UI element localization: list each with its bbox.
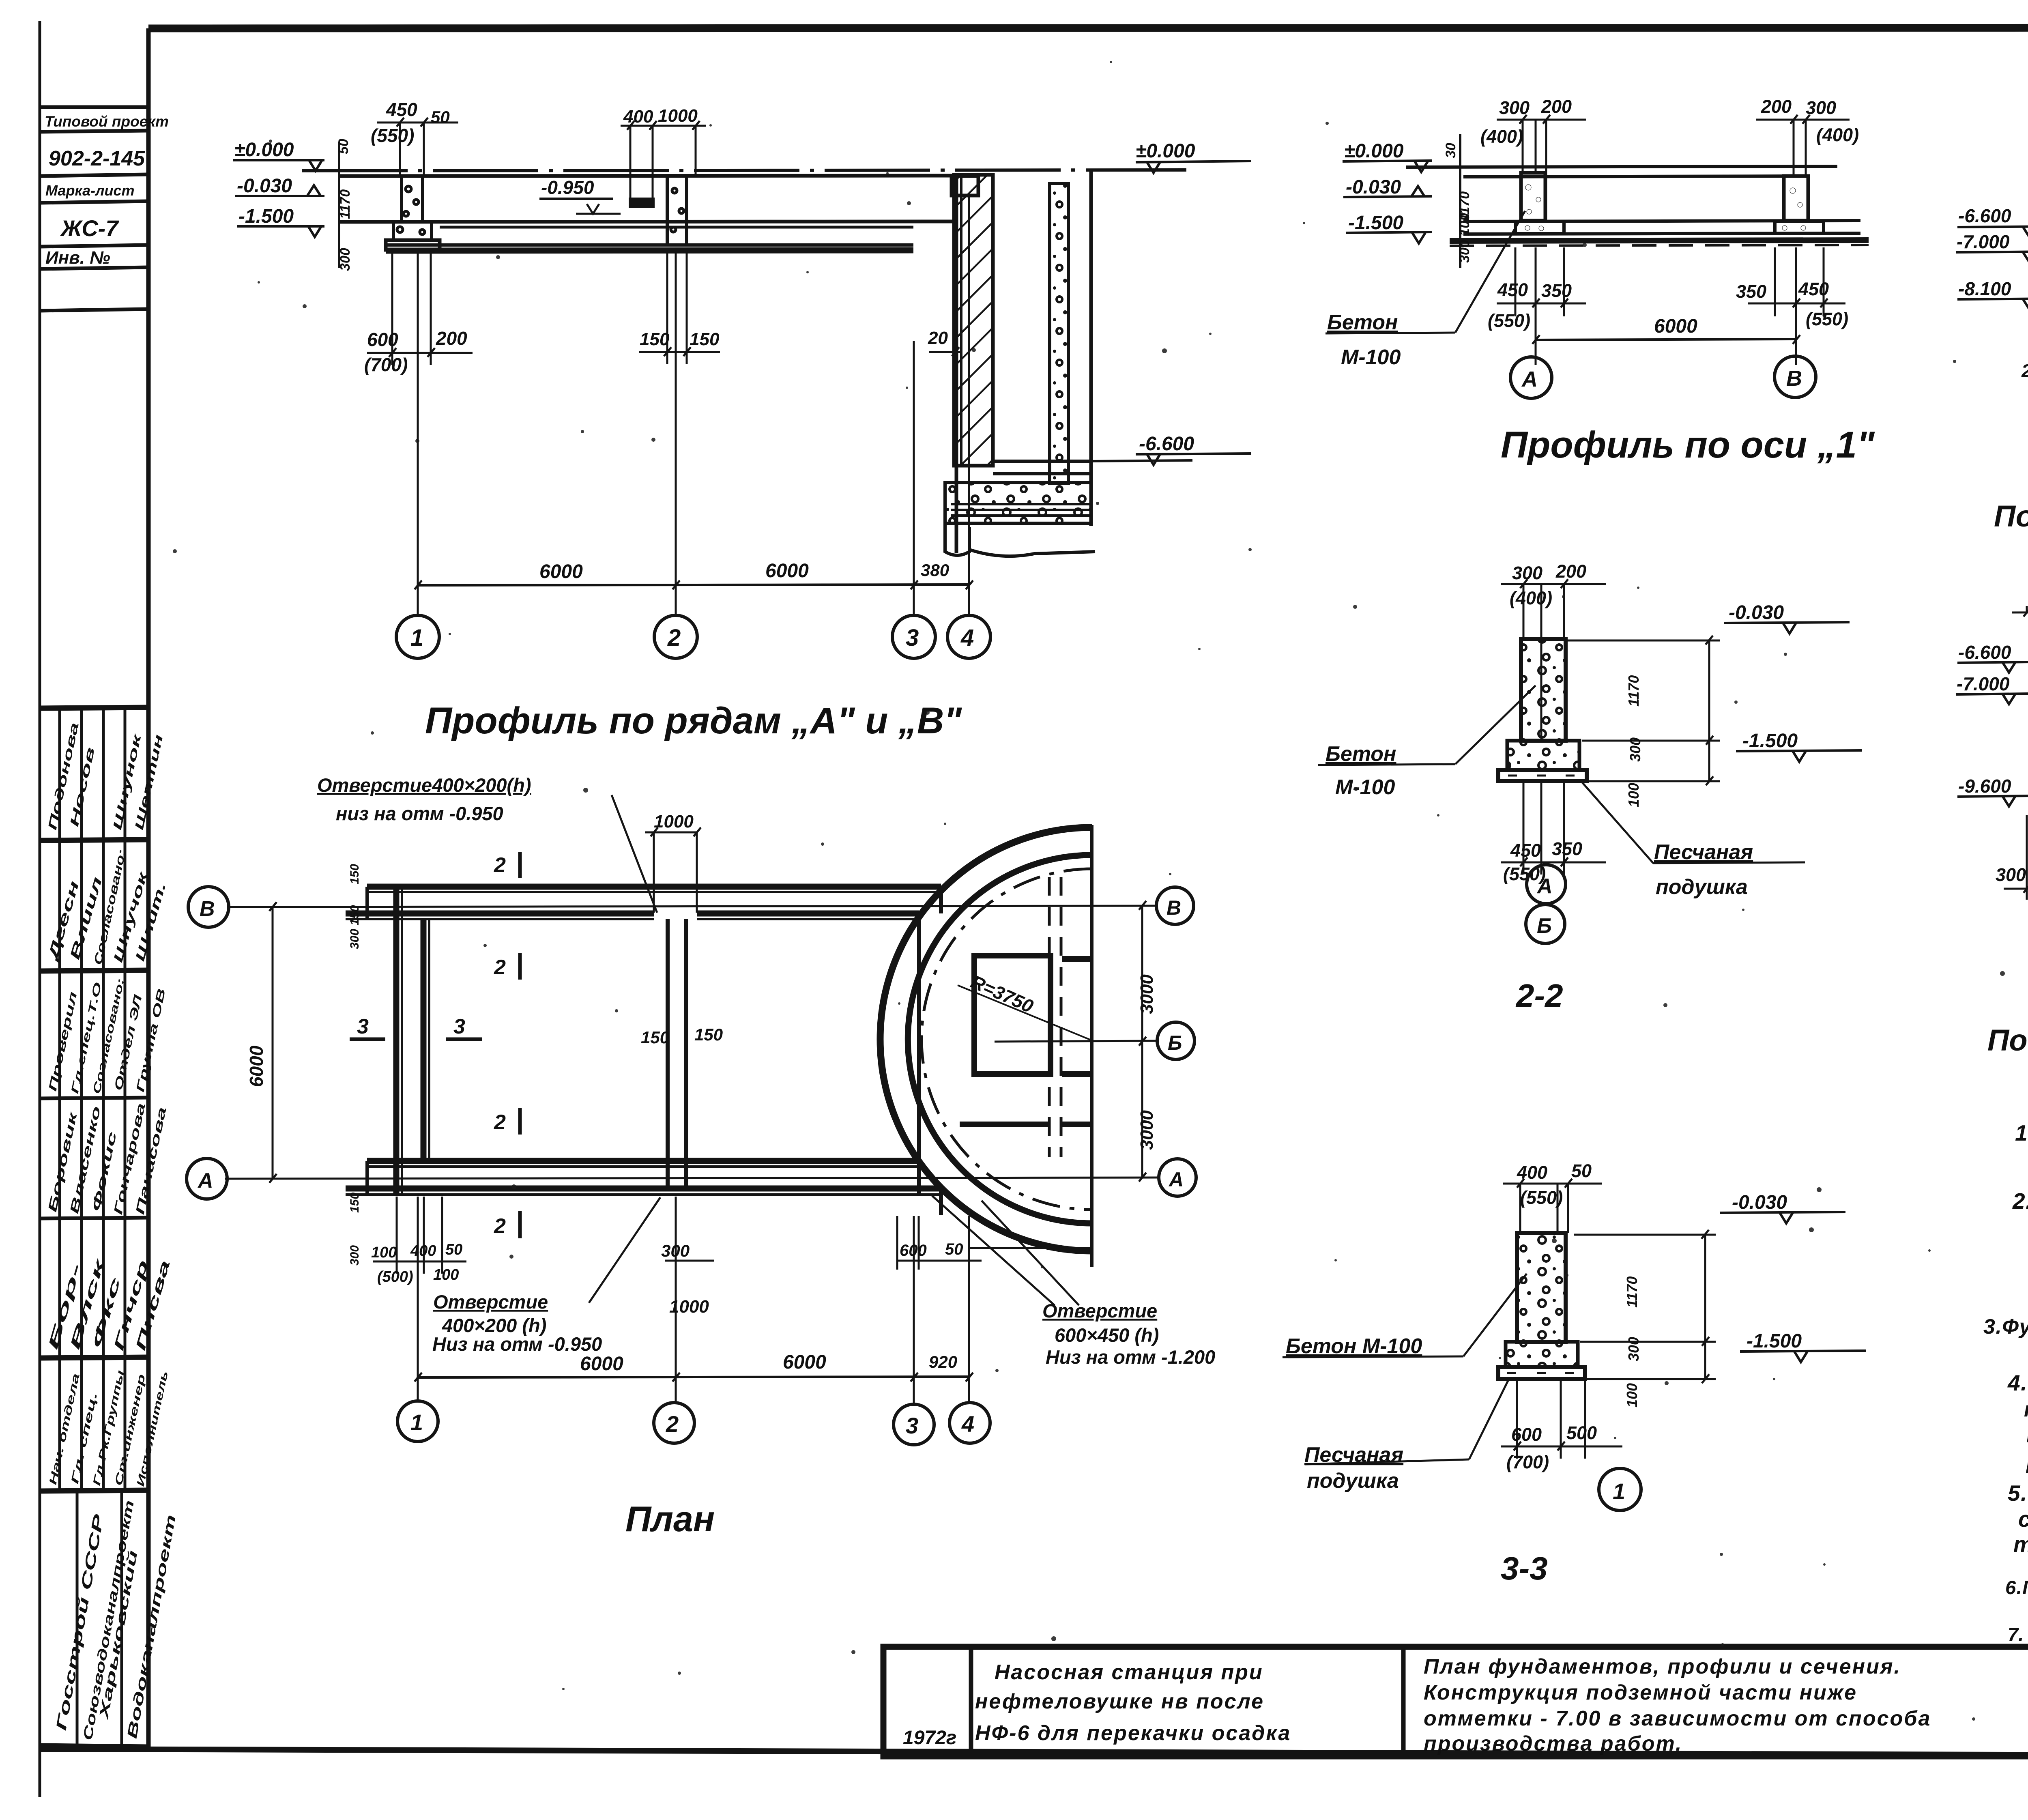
svg-text:-6.600: -6.600 <box>1958 205 2011 226</box>
svg-text:1: 1 <box>410 1410 423 1435</box>
slab top line <box>340 176 954 176</box>
svg-text:Погружение колодца с водоотлив: Погружение колодца с водоотливом. <box>1994 499 2028 533</box>
svg-text:ЖС-7: ЖС-7 <box>60 215 119 241</box>
plan section marks <box>350 852 520 1238</box>
frame bottom <box>40 1749 2028 1756</box>
stamp top labels <box>45 113 169 268</box>
svg-text:Конструкция подземной части: Конструкция подземной части ниже <box>1424 1681 1857 1704</box>
svg-text:300: 300 <box>1806 97 1836 118</box>
svg-text:400: 400 <box>623 107 653 127</box>
svg-text:1000: 1000 <box>669 1297 709 1317</box>
svg-text:150: 150 <box>640 329 670 349</box>
sec11b elevations <box>1956 662 2028 806</box>
svg-text:1000: 1000 <box>654 812 694 832</box>
svg-text:сматривается в связных глини: сматривается в связных глинистых грун- <box>2018 1506 2028 1532</box>
svg-text:4: 4 <box>960 625 974 651</box>
STAMP COLUMN TOP <box>40 107 148 311</box>
elevation marks left <box>233 142 339 268</box>
svg-text:6.Глубина заложения подушки оп: 6.Глубина заложения подушки определяется… <box>2005 1577 2028 1598</box>
svg-text:Песчаная: Песчаная <box>1654 840 1753 864</box>
svg-text:Профиль по рядам „А" и „В": Профиль по рядам „А" и „В" <box>425 700 962 741</box>
column axis1 <box>402 176 423 221</box>
svg-text:Марка-лист: Марка-лист <box>45 182 135 199</box>
svg-text:R=3750: R=3750 <box>968 971 1037 1017</box>
svg-text:600: 600 <box>367 329 398 350</box>
svg-text:100: 100 <box>1624 1383 1640 1407</box>
svg-text:100: 100 <box>1625 783 1642 807</box>
svg-text:-7.000: -7.000 <box>1957 231 2010 252</box>
svg-text:200: 200 <box>1761 96 1792 117</box>
svg-text:150: 150 <box>694 1025 723 1044</box>
vertical dim 6000 left <box>272 907 274 1179</box>
svg-text:(400): (400) <box>1510 588 1552 608</box>
svg-text:Бетон М-100: Бетон М-100 <box>1286 1334 1422 1358</box>
svg-text:200: 200 <box>1555 561 1586 582</box>
svg-text:(400): (400) <box>1816 125 1859 145</box>
frame left / stamp right edge <box>146 28 151 1750</box>
svg-text:200: 200 <box>436 328 467 349</box>
svg-text:тах.: тах. <box>2013 1532 2028 1557</box>
svg-text:300: 300 <box>1499 97 1530 118</box>
sec11a elevations <box>1956 226 2028 309</box>
svg-text:подушка: подушка <box>1307 1469 1399 1493</box>
svg-text:1: 1 <box>410 625 423 651</box>
svg-text:300: 300 <box>337 248 353 271</box>
svg-text:±0.000: ±0.000 <box>234 139 294 161</box>
svg-text:подушка: подушка <box>1656 875 1748 899</box>
svg-text:2: 2 <box>494 1214 506 1238</box>
SIGNATURE TABLE <box>40 707 148 1746</box>
WALL SECTION right of drawing 1 <box>945 170 1192 556</box>
svg-text:600: 600 <box>1511 1424 1542 1445</box>
svg-text:В: В <box>1167 896 1181 919</box>
svg-text:2-2: 2-2 <box>1515 978 1563 1014</box>
svg-text:50: 50 <box>445 1241 462 1258</box>
svg-text:(700): (700) <box>1506 1452 1549 1472</box>
signature table rotated texts <box>45 721 179 1741</box>
svg-text:В: В <box>1786 366 1802 391</box>
svg-text:450: 450 <box>1497 279 1528 300</box>
svg-text:1170: 1170 <box>1624 1276 1640 1308</box>
svg-text:6000: 6000 <box>539 561 583 582</box>
svg-text:План: План <box>625 1499 715 1539</box>
svg-text:М-100: М-100 <box>1335 776 1395 799</box>
svg-text:М-100: М-100 <box>1341 346 1401 369</box>
svg-text:Насосная станция при: Насосная станция при <box>995 1661 1263 1684</box>
-0.950 mark with opening box <box>539 199 621 214</box>
axes of drawing 1 <box>415 197 973 615</box>
sec3-3 bottom dims <box>1501 1381 1622 1459</box>
svg-text:производства работ.: производства работ. <box>1424 1732 1683 1756</box>
svg-text:450: 450 <box>386 99 417 120</box>
column axis2 <box>667 176 687 245</box>
dashed section lines through well <box>1048 877 1051 1157</box>
SECTION 1-1 (without dewatering) <box>2012 605 2028 827</box>
svg-text:50: 50 <box>336 139 351 154</box>
svg-text:1.Настоящий чертеж рассматрива: 1.Настоящий чертеж рассматривать <box>2015 1120 2028 1145</box>
svg-text:2.При привязке типового проект: 2.При привязке типового проекта уточ- <box>2012 1188 2028 1214</box>
svg-text:Бетон: Бетон <box>1326 742 1396 766</box>
ground level line 0.000 <box>302 170 1186 171</box>
column A <box>1521 173 1545 221</box>
plan right wall cap near axis 3/4 <box>917 913 921 1195</box>
svg-text:2: 2 <box>494 956 506 979</box>
svg-text:-1.500: -1.500 <box>1742 730 1798 752</box>
axis1 profile elevations <box>1343 134 1460 268</box>
TITLE BLOCK <box>883 1647 2028 1756</box>
frame top <box>148 28 2028 28</box>
svg-text:А: А <box>1521 367 1538 391</box>
svg-text:600×450 (h): 600×450 (h) <box>1055 1324 1159 1346</box>
svg-text:2: 2 <box>667 625 681 651</box>
svg-text:А: А <box>197 1169 213 1193</box>
svg-text:Низ на отм -1.200: Низ на отм -1.200 <box>1046 1346 1215 1368</box>
svg-text:500: 500 <box>1566 1422 1597 1443</box>
svg-text:1972г: 1972г <box>903 1727 956 1749</box>
svg-text:(550): (550) <box>1806 309 1848 329</box>
SECTION 3-3 <box>1498 1233 1585 1379</box>
svg-text:400: 400 <box>1517 1162 1547 1183</box>
drawing1 top dimensions <box>377 118 706 198</box>
plan top wall (row B) <box>346 887 941 1215</box>
svg-text:3: 3 <box>357 1015 369 1038</box>
svg-text:-0.030: -0.030 <box>1729 602 1784 623</box>
column B <box>1784 176 1808 221</box>
right elevation marks of drawing1 <box>1136 161 1251 465</box>
plan bottom wall (row A) <box>367 1158 919 1164</box>
svg-text:песчаная подушка для выравнив: песчаная подушка для выравнивания осадок <box>2024 1398 2028 1421</box>
svg-text:А: А <box>1168 1168 1184 1191</box>
svg-text:(550): (550) <box>1520 1187 1563 1208</box>
svg-text:30: 30 <box>1443 143 1459 158</box>
svg-text:150: 150 <box>348 864 361 884</box>
svg-text:результате опускания колодца: результате опускания колодца. <box>2026 1448 2028 1473</box>
DRAWING 1 : Profile along rows A and B <box>302 170 1186 251</box>
svg-text:А: А <box>1536 875 1553 898</box>
svg-text:5. Устройство песчаной подуш: 5. Устройство песчаной подушки преду- <box>2008 1480 2028 1506</box>
svg-text:50: 50 <box>431 107 450 127</box>
svg-text:300: 300 <box>661 1241 690 1260</box>
svg-text:200: 200 <box>1541 96 1572 117</box>
svg-text:902-2-145: 902-2-145 <box>49 147 145 170</box>
sec11b bottom dims <box>2004 815 2028 900</box>
svg-text:6000: 6000 <box>246 1045 267 1087</box>
svg-text:Бетон: Бетон <box>1327 311 1398 334</box>
svg-text:50: 50 <box>945 1240 963 1258</box>
svg-text:(500): (500) <box>377 1268 413 1285</box>
paper edge line <box>39 21 41 1797</box>
svg-text:(700): (700) <box>364 354 408 375</box>
svg-text:Песчаная: Песчаная <box>1304 1443 1403 1467</box>
svg-text:отметки - 7.00 в зависимости о: отметки - 7.00 в зависимости от способа <box>1424 1707 1931 1730</box>
svg-text:Инв. №: Инв. № <box>45 248 110 268</box>
axis1 profile bottom dims <box>1497 247 1845 365</box>
plan middle wall (axis 2) <box>666 919 670 1188</box>
svg-text:20: 20 <box>928 328 948 348</box>
svg-text:150: 150 <box>641 1028 669 1047</box>
svg-text:3000: 3000 <box>1137 1110 1157 1150</box>
svg-text:2: 2 <box>494 853 506 877</box>
WELL arc assembly <box>880 825 1092 1267</box>
svg-text:300: 300 <box>348 1245 361 1266</box>
svg-text:(550): (550) <box>371 125 414 146</box>
plan bottom dim extension to chord <box>969 1247 1092 1249</box>
svg-text:6000: 6000 <box>1654 316 1697 337</box>
svg-text:в грунте, которые могут возни: в грунте, которые могут возникать в <box>2026 1422 2028 1447</box>
svg-text:1000: 1000 <box>658 106 698 126</box>
svg-text:2: 2 <box>494 1111 506 1134</box>
svg-text:±0.000: ±0.000 <box>1136 140 1195 162</box>
svg-text:6000: 6000 <box>765 560 809 582</box>
svg-text:150: 150 <box>690 329 720 349</box>
footing band <box>1463 221 1860 221</box>
plan bottom-right callout <box>932 1196 1079 1305</box>
svg-text:Низ на отм -0.950: Низ на отм -0.950 <box>432 1333 602 1355</box>
svg-text:200: 200 <box>2021 361 2028 381</box>
svg-text:План фундаментов, профили и се: План фундаментов, профили и сечения. <box>1424 1655 1901 1678</box>
svg-text:-1.500: -1.500 <box>1348 212 1403 234</box>
svg-text:3: 3 <box>453 1015 465 1038</box>
svg-text:Погружение колодца без водоотл: Погружение колодца без водоотлива. <box>1987 1023 2028 1057</box>
svg-text:600: 600 <box>900 1242 927 1259</box>
svg-text:3: 3 <box>906 625 919 651</box>
bottom dims of columns <box>367 250 961 365</box>
svg-text:50: 50 <box>1571 1160 1592 1181</box>
interior pit rectangle <box>974 956 1051 1074</box>
svg-text:-7.000: -7.000 <box>1957 673 2010 694</box>
plan grid circles bottom <box>397 1401 990 1445</box>
svg-text:Отверстие: Отверстие <box>433 1291 548 1313</box>
svg-text:3: 3 <box>906 1413 918 1438</box>
svg-text:2: 2 <box>666 1411 679 1437</box>
plan bottom dim block <box>373 1197 982 1382</box>
svg-text:350: 350 <box>1552 838 1582 859</box>
svg-text:Типовой проект: Типовой проект <box>45 113 169 130</box>
svg-text:6000: 6000 <box>783 1352 826 1373</box>
svg-text:100: 100 <box>371 1244 397 1261</box>
svg-text:4. В основании фундаментов уст: 4. В основании фундаментов устраивается <box>2007 1370 2028 1395</box>
svg-text:450: 450 <box>1798 279 1829 299</box>
axis1 circles <box>1510 356 1816 398</box>
grid circles drawing 1 <box>396 615 990 658</box>
svg-text:(550): (550) <box>1488 310 1530 331</box>
svg-text:300 150: 300 150 <box>348 905 361 949</box>
svg-text:-1.500: -1.500 <box>1747 1330 1802 1352</box>
SECTION 2-2 <box>1498 639 1587 781</box>
svg-text:300: 300 <box>1625 1337 1642 1361</box>
axis1 profile top dims <box>1497 115 1850 176</box>
svg-text:Б: Б <box>1168 1031 1182 1054</box>
svg-text:Отверстие: Отверстие <box>1042 1300 1157 1321</box>
svg-text:-1.500: -1.500 <box>238 206 294 227</box>
svg-text:100: 100 <box>433 1266 459 1283</box>
svg-text:450: 450 <box>1510 840 1541 861</box>
level lines right <box>1091 460 1192 461</box>
floor slab line <box>340 221 954 222</box>
svg-text:920: 920 <box>929 1352 957 1371</box>
svg-text:3000: 3000 <box>1137 974 1157 1014</box>
svg-text:-9.600: -9.600 <box>1958 776 2011 797</box>
svg-text:4: 4 <box>961 1411 974 1437</box>
DRAWING: Profile along axis 1 <box>1406 166 1869 246</box>
svg-text:3.Фундаменты выполняются после: 3.Фундаменты выполняются после опускания <box>1983 1315 2028 1339</box>
svg-text:НФ-6 для перекачки осадка: НФ-6 для перекачки осадка <box>975 1721 1291 1745</box>
svg-text:Водоканалпроект: Водоканалпроект <box>124 1513 179 1740</box>
svg-text:Отверстие400×200(h): Отверстие400×200(h) <box>317 774 531 796</box>
svg-text:400: 400 <box>410 1242 436 1259</box>
svg-text:300: 300 <box>1996 864 2026 885</box>
svg-text:150: 150 <box>348 1193 361 1213</box>
svg-text:-6.600: -6.600 <box>1139 433 1194 455</box>
svg-text:-0.030: -0.030 <box>237 175 292 197</box>
svg-text:-8.100: -8.100 <box>1958 278 2011 299</box>
svg-text:300: 300 <box>1627 737 1643 762</box>
right vertical dim of plan <box>1139 901 1146 1182</box>
svg-text:-0.030: -0.030 <box>1346 176 1401 198</box>
svg-text:±0.000: ±0.000 <box>1344 140 1404 162</box>
svg-text:нефтеловушке нв после: нефтеловушке нв после <box>975 1690 1264 1713</box>
plan left wall (axis 1) <box>393 887 400 1195</box>
svg-text:(400): (400) <box>1480 126 1523 147</box>
svg-text:350: 350 <box>1541 280 1572 301</box>
svg-text:-0.950: -0.950 <box>541 177 594 198</box>
plan grid axis lines <box>225 902 1159 1404</box>
svg-text:1170: 1170 <box>337 189 353 219</box>
svg-text:1: 1 <box>1613 1478 1625 1504</box>
svg-text:-0.030: -0.030 <box>1732 1192 1787 1213</box>
svg-text:380: 380 <box>921 561 949 580</box>
svg-text:Профиль по оси „1": Профиль по оси „1" <box>1501 424 1875 466</box>
svg-text:350: 350 <box>1736 281 1766 302</box>
radius line <box>958 985 1092 1040</box>
svg-text:низ на отм -0.950: низ на отм -0.950 <box>336 803 503 824</box>
svg-text:-6.600: -6.600 <box>1958 642 2011 663</box>
svg-text:300: 300 <box>1512 563 1542 583</box>
svg-text:3-3: 3-3 <box>1501 1550 1548 1586</box>
svg-text:6000: 6000 <box>580 1353 623 1375</box>
beam bottom thick lines <box>386 243 913 247</box>
svg-text:7. Размеры в скобках даны для: 7. Размеры в скобках даны для толщины ст… <box>2008 1624 2028 1645</box>
svg-text:В: В <box>200 897 215 921</box>
sec2-2 bottom dims <box>1501 783 1606 875</box>
plan grid circles <box>187 887 1196 1199</box>
svg-text:1170: 1170 <box>1625 675 1642 707</box>
svg-text:300 100: 300 100 <box>1457 213 1472 263</box>
inner floor slabs of well <box>993 460 1091 463</box>
svg-text:Б: Б <box>1537 914 1552 938</box>
